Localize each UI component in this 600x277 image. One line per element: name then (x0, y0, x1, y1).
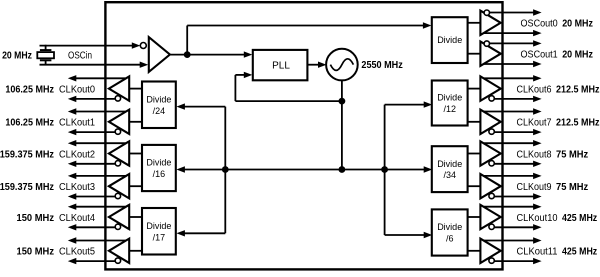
wire OSCin bottom (40, 62, 149, 68)
svg-text:425 MHz: 425 MHz (562, 212, 597, 224)
output buffer CLKout0 (109, 76, 129, 101)
wire divider to buffer CLKout6 (468, 88, 481, 90)
svg-text:159.375 MHz: 159.375 MHz (0, 181, 54, 193)
svg-text:159.375 MHz: 159.375 MHz (0, 148, 54, 160)
wire divider to buffer CLKout9 (468, 185, 481, 187)
label OSCout0 20 MHz (521, 18, 594, 30)
output buffer CLKout1 (109, 110, 129, 135)
output buffer CLKout3 (109, 174, 129, 199)
svg-text:150 MHz: 150 MHz (17, 212, 55, 224)
wire divider to buffer CLKout2 (129, 153, 142, 155)
svg-text:20 MHz: 20 MHz (562, 18, 593, 30)
wire CLKout4 true output (68, 204, 126, 210)
wire OSCin top (40, 42, 141, 48)
divider U8 Divide /34 (432, 146, 468, 192)
svg-text:CLKout3: CLKout3 (59, 182, 95, 193)
wire to divider /17 (176, 230, 225, 236)
label 150 MHz CLKout5 (17, 246, 96, 258)
wire CLKout4 complement output (68, 224, 115, 230)
wire to divider /24 (176, 103, 225, 109)
label 150 MHz CLKout4 (17, 212, 96, 224)
output buffer OSCout0 (480, 10, 500, 35)
svg-text:Divide: Divide (146, 94, 171, 104)
wire CLKout2 complement output (68, 161, 115, 167)
svg-text:CLKout9: CLKout9 (517, 182, 552, 193)
label OSCout1 20 MHz (521, 49, 594, 61)
wire CLKout11 complement output (494, 258, 541, 264)
wire buffer output to PLL (170, 51, 252, 57)
junction bus/VCO (339, 166, 346, 173)
wire CLKout0 true output (68, 75, 126, 81)
wire OSCout1 true output (490, 40, 542, 46)
wire OSCout1 complement output (484, 61, 542, 67)
wire PLL to VCO (307, 62, 326, 68)
wire divider to buffer CLKout5 (129, 250, 142, 252)
divider U5 Divide /17 (142, 208, 176, 255)
label 2550 MHz (361, 59, 402, 71)
input buffer U2 (140, 37, 170, 72)
svg-text:Divide: Divide (146, 221, 171, 231)
svg-text:20 MHz: 20 MHz (562, 49, 593, 61)
svg-text:OSCout0: OSCout0 (521, 19, 559, 30)
svg-text:OSCout1: OSCout1 (521, 50, 559, 61)
wire divider to buffer CLKout11 (468, 250, 481, 252)
wire main bus to divider /34 (225, 166, 432, 172)
svg-text:150 MHz: 150 MHz (17, 246, 55, 258)
svg-text:212.5 MHz: 212.5 MHz (556, 117, 600, 129)
svg-text:OSCin: OSCin (68, 50, 92, 61)
wire CLKout7 true output (484, 108, 542, 114)
output buffer CLKout6 (480, 76, 500, 101)
svg-text:CLKout4: CLKout4 (59, 213, 95, 224)
wire CLKout6 true output (484, 75, 542, 81)
svg-text:CLKout5: CLKout5 (59, 247, 95, 258)
svg-text:Divide: Divide (437, 35, 462, 45)
svg-text:CLKout10: CLKout10 (517, 213, 558, 224)
label 159.375 MHz CLKout2 (0, 148, 95, 160)
output buffer CLKout11 (480, 239, 500, 264)
divider U9 Divide /6 (432, 209, 468, 255)
wire CLKout3 true output (68, 173, 126, 179)
label CLKout11 425 MHz (517, 246, 598, 258)
svg-text:2550 MHz: 2550 MHz (361, 59, 402, 71)
label 159.375 MHz CLKout3 (0, 181, 95, 193)
wire CLKout9 complement output (494, 193, 541, 199)
output buffer CLKout10 (480, 205, 500, 230)
wire right distribution vertical (384, 105, 386, 235)
svg-text:20 MHz: 20 MHz (2, 49, 32, 61)
svg-text:CLKout7: CLKout7 (517, 118, 552, 129)
wire CLKout6 complement output (494, 96, 541, 102)
wire divider to buffer CLKout10 (468, 216, 481, 218)
wire CLKout2 true output (68, 140, 126, 146)
crystal X1 (37, 45, 54, 66)
svg-text:75 MHz: 75 MHz (556, 148, 588, 160)
node OSCin label (68, 50, 92, 61)
VCO oscillator (326, 49, 358, 81)
PLL box (253, 50, 308, 80)
wire CLKout3 complement output (68, 193, 115, 199)
svg-text:CLKout11: CLKout11 (517, 247, 558, 258)
svg-text:106.25 MHz: 106.25 MHz (5, 83, 54, 95)
wire CLKout10 true output (484, 204, 542, 210)
wire CLKout1 complement output (68, 129, 115, 135)
output buffer CLKout8 (480, 141, 500, 166)
svg-text:CLKout6: CLKout6 (517, 84, 552, 95)
wire divider to buffer CLKout8 (468, 153, 481, 155)
wire to divider /6 (385, 232, 433, 238)
junction VCO/feedback (339, 98, 346, 105)
label CLKout8 75 MHz (517, 148, 589, 160)
label CLKout10 425 MHz (517, 212, 598, 224)
label 106.25 MHz CLKout0 (5, 83, 95, 95)
svg-text:425 MHz: 425 MHz (562, 246, 597, 258)
wire to divider /16 (176, 166, 225, 172)
wire CLKout11 true output (484, 237, 542, 243)
divider U3 Divide /24 (142, 82, 176, 129)
wire CLKout9 true output (484, 173, 542, 179)
svg-text:CLKout2: CLKout2 (59, 149, 95, 160)
label CLKout7 212.5 MHz (517, 117, 600, 129)
svg-text:PLL: PLL (272, 61, 290, 72)
svg-text:Divide: Divide (437, 222, 462, 232)
divider U6 Divide (OSCout) (432, 17, 468, 63)
svg-text:/6: /6 (446, 234, 454, 244)
wire CLKout5 true output (68, 237, 126, 243)
svg-text:Divide: Divide (437, 93, 462, 103)
wire CLKout1 true output (68, 108, 126, 114)
svg-text:/16: /16 (153, 169, 166, 179)
output buffer CLKout2 (109, 141, 129, 166)
output buffer CLKout5 (109, 239, 129, 264)
svg-text:CLKout0: CLKout0 (59, 84, 95, 95)
wire divider to buffer CLKout1 (129, 121, 142, 123)
wire left distribution vertical (224, 107, 226, 234)
wire feedback to PLL (235, 72, 342, 101)
wire CLKout5 complement output (68, 258, 115, 264)
wire divider to buffer CLKout4 (129, 216, 142, 218)
wire node A up to OSC divider (187, 22, 431, 54)
svg-text:CLKout8: CLKout8 (517, 149, 552, 160)
wire to divider /12 (385, 101, 433, 107)
svg-text:/17: /17 (153, 232, 166, 242)
junction bus right (381, 166, 388, 173)
svg-text:/34: /34 (443, 170, 456, 180)
svg-text:106.25 MHz: 106.25 MHz (5, 117, 54, 129)
divider U7 Divide /12 (432, 81, 468, 126)
output buffer CLKout4 (109, 205, 129, 230)
wire CLKout7 complement output (494, 129, 541, 135)
svg-text:CLKout1: CLKout1 (59, 118, 95, 129)
label CLKout6 212.5 MHz (517, 83, 600, 95)
label CLKout9 75 MHz (517, 181, 589, 193)
wire divider to buffer CLKout3 (129, 185, 142, 187)
wire VCO down to bus (341, 80, 343, 169)
wire OSCout0 true output (490, 9, 542, 15)
wire OSCout0 complement output (484, 30, 542, 36)
wire divider to buffer OSCout0 (468, 22, 481, 24)
wire divider to buffer CLKout7 (468, 121, 481, 123)
output buffer OSCout1 (480, 41, 500, 66)
svg-text:/24: /24 (153, 106, 166, 116)
output buffer CLKout7 (480, 110, 500, 135)
wire CLKout0 complement output (68, 96, 115, 102)
wire CLKout8 true output (484, 140, 542, 146)
label 20 MHz input (2, 49, 32, 61)
svg-text:Divide: Divide (437, 159, 462, 169)
wire CLKout10 complement output (494, 224, 541, 230)
svg-text:/12: /12 (443, 104, 456, 114)
output buffer CLKout9 (480, 174, 500, 199)
chip outline U1 (105, 2, 502, 269)
svg-text:212.5 MHz: 212.5 MHz (556, 83, 600, 95)
svg-text:Divide: Divide (146, 158, 171, 168)
wire divider to buffer CLKout0 (129, 88, 142, 90)
wire divider to buffer OSCout1 (468, 53, 481, 55)
divider U4 Divide /16 (142, 145, 176, 191)
label 106.25 MHz CLKout1 (5, 117, 95, 129)
junction bus left (222, 166, 229, 173)
svg-text:75 MHz: 75 MHz (556, 181, 588, 193)
wire CLKout8 complement output (494, 161, 541, 167)
junction node A (buffer output) (184, 51, 191, 58)
